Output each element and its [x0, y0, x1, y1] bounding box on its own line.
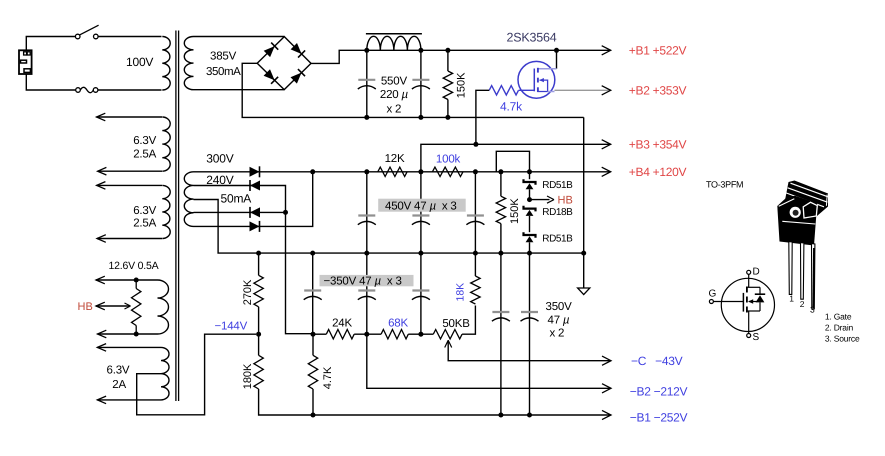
svg-text:300V: 300V	[206, 152, 233, 166]
svg-text:D: D	[753, 267, 760, 278]
svg-text:50KB: 50KB	[442, 318, 470, 330]
svg-text:2: 2	[800, 299, 805, 309]
svg-text:+B2 +353V: +B2 +353V	[629, 83, 687, 97]
svg-text:1. Gate: 1. Gate	[825, 311, 852, 321]
svg-text:24K: 24K	[332, 318, 352, 330]
svg-text:2. Drain: 2. Drain	[825, 322, 854, 332]
svg-text:RD18B: RD18B	[542, 207, 573, 218]
svg-text:+B3 +354V: +B3 +354V	[629, 138, 687, 152]
svg-text:450V 47 µ x 3: 450V 47 µ x 3	[385, 200, 457, 212]
svg-text:4.7K: 4.7K	[322, 366, 334, 389]
svg-text:12K: 12K	[385, 153, 405, 165]
svg-text:RD51B: RD51B	[542, 233, 573, 244]
svg-text:−350V 47 µ x 3: −350V 47 µ x 3	[324, 275, 402, 287]
svg-text:220 µ: 220 µ	[380, 89, 409, 101]
svg-text:12.6V 0.5A: 12.6V 0.5A	[109, 260, 159, 272]
svg-text:3: 3	[810, 304, 815, 314]
svg-text:G: G	[709, 289, 717, 300]
svg-text:3. Source: 3. Source	[825, 333, 860, 343]
svg-text:−B1 −252V: −B1 −252V	[630, 410, 688, 424]
svg-text:6.3V: 6.3V	[107, 364, 130, 376]
svg-text:4.7k: 4.7k	[500, 99, 523, 113]
svg-text:2A: 2A	[112, 379, 126, 391]
svg-text:S: S	[753, 332, 760, 343]
svg-text:550V: 550V	[381, 76, 408, 88]
svg-text:350V: 350V	[546, 301, 573, 313]
svg-text:TO-3PFM: TO-3PFM	[706, 180, 743, 190]
svg-text:68K: 68K	[388, 318, 408, 330]
svg-text:6.3V: 6.3V	[133, 135, 156, 147]
svg-text:350mA: 350mA	[206, 66, 241, 78]
svg-text:6.3V: 6.3V	[133, 205, 156, 217]
svg-text:x 2: x 2	[387, 104, 402, 116]
svg-text:RD51B: RD51B	[542, 180, 573, 191]
svg-text:−B2 −212V: −B2 −212V	[630, 384, 688, 398]
svg-text:150K: 150K	[509, 198, 521, 224]
svg-text:2.5A: 2.5A	[133, 217, 156, 229]
svg-text:HB: HB	[558, 194, 573, 206]
svg-text:47 µ: 47 µ	[548, 314, 570, 326]
svg-text:100k: 100k	[436, 154, 461, 166]
svg-text:180K: 180K	[242, 363, 254, 389]
svg-text:50mA: 50mA	[221, 191, 252, 205]
svg-text:+B4 +120V: +B4 +120V	[629, 165, 687, 179]
svg-text:2.5A: 2.5A	[133, 149, 156, 161]
svg-text:150K: 150K	[456, 72, 468, 98]
svg-text:+B1 +522V: +B1 +522V	[629, 44, 687, 58]
svg-text:1: 1	[789, 294, 794, 304]
svg-text:HB: HB	[78, 301, 93, 313]
svg-text:270K: 270K	[242, 279, 254, 305]
svg-text:−C −43V: −C −43V	[631, 354, 683, 368]
svg-text:385V: 385V	[210, 51, 237, 63]
svg-text:18K: 18K	[455, 283, 467, 302]
svg-text:100V: 100V	[126, 55, 153, 69]
svg-text:2SK3564: 2SK3564	[507, 31, 557, 45]
svg-text:−144V: −144V	[215, 320, 248, 332]
svg-text:x 2: x 2	[550, 328, 565, 340]
